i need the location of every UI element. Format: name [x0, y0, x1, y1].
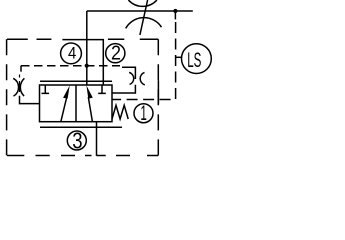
wire: left pilot dashed line: [21, 65, 120, 67]
svg-text:LS: LS: [187, 48, 201, 72]
blocked port T left: [42, 85, 50, 93]
spring (right of valve): [112, 105, 128, 119]
port LS circle: [176, 56, 181, 58]
arrow right square: [88, 97, 92, 122]
node: junction dot on main line: [173, 9, 177, 13]
orifice right (pilot orifice to spring chamber): [112, 67, 145, 93]
svg-text:4: 4: [68, 44, 76, 62]
port 4 label: [61, 43, 82, 64]
variable orifice (adjustable restrictor on main line): [126, 0, 162, 35]
wire: port 4 vertical line: [86, 11, 88, 85]
svg-text:2: 2: [111, 42, 121, 64]
svg-text:1: 1: [140, 102, 147, 125]
blocked port T right: [98, 85, 106, 93]
wire: port 3 line down: [96, 122, 98, 156]
wire: port 1 stub: [157, 80, 159, 104]
port 2 label: [106, 42, 125, 64]
wire: main line top: [87, 10, 193, 12]
port 1 label: [134, 102, 153, 125]
port 3 label: [67, 127, 86, 153]
node: junction dot on port4 line: [85, 64, 89, 68]
arrow left square: [61, 94, 68, 121]
valve: proportional 2-position spool: [40, 81, 123, 127]
wire: port 2 line (corner): [62, 40, 103, 85]
wire: LS pilot line (dashed): [174, 11, 176, 19]
svg-text:3: 3: [72, 127, 82, 153]
orifice left (pilot orifice): [13, 75, 40, 104]
enclosure (cartridge dashed boundary): [7, 39, 159, 155]
